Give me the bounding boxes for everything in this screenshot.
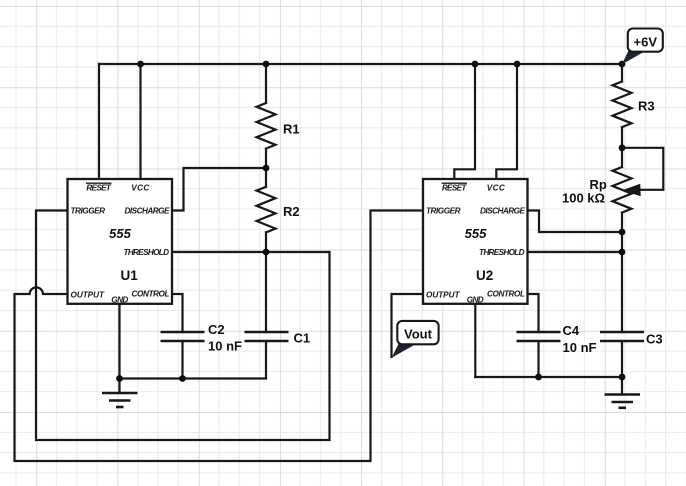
svg-text:U1: U1 xyxy=(121,268,139,283)
wire R2 bottom lead xyxy=(265,232,267,252)
wire U2 vcc to rail xyxy=(496,64,517,179)
wire U1 reset to rail xyxy=(98,64,100,179)
svg-text:10 nF: 10 nF xyxy=(563,340,597,355)
resistor R3 xyxy=(613,82,632,128)
node dot C3/ground bus xyxy=(619,374,626,381)
node dot R2/threshold xyxy=(263,249,270,256)
svg-text:GND: GND xyxy=(111,295,128,304)
wire U1 threshold / trigger loop xyxy=(36,211,330,441)
svg-text:100 kΩ: 100 kΩ xyxy=(562,190,605,205)
svg-text:C1: C1 xyxy=(294,331,311,346)
wire C3 bottom to ground xyxy=(621,341,623,395)
wire R1 bottom lead xyxy=(265,149,267,168)
wire Rp bottom lead xyxy=(621,213,623,252)
wire top +6V rail xyxy=(99,63,622,65)
wire C1 bottom xyxy=(265,341,267,379)
ground U1 xyxy=(102,393,138,407)
node dot R1/R2 xyxy=(263,165,270,172)
potentiometer Rp xyxy=(613,167,632,213)
svg-text:TRIGGER: TRIGGER xyxy=(71,206,106,215)
svg-text:THRESHOLD: THRESHOLD xyxy=(124,248,170,257)
node dot C2 bus xyxy=(179,375,186,382)
svg-text:555: 555 xyxy=(465,226,487,241)
svg-text:DISCHARGE: DISCHARGE xyxy=(125,206,171,215)
svg-text:OUTPUT: OUTPUT xyxy=(71,291,105,300)
resistor R2 xyxy=(257,187,276,233)
wire R2 top lead xyxy=(265,168,267,187)
node dot rail vcc1 xyxy=(137,61,144,68)
capacitor C4 xyxy=(517,332,561,341)
node dot C4 bus xyxy=(535,374,542,381)
node dot gnd1 bus xyxy=(116,375,123,382)
svg-text:VCC: VCC xyxy=(131,184,150,193)
node Vout flag xyxy=(392,321,439,358)
wire C2 bottom xyxy=(181,341,183,379)
svg-text:TRIGGER: TRIGGER xyxy=(426,206,461,215)
wire U2 gnd down xyxy=(474,304,476,377)
wire U2 threshold to C3 node xyxy=(528,251,623,253)
wire C4 bottom xyxy=(537,341,539,377)
wire U1 discharge to R1/R2 node xyxy=(172,168,266,211)
wire R3 top lead xyxy=(621,64,623,82)
svg-text:C4: C4 xyxy=(563,323,580,338)
svg-text:RESET: RESET xyxy=(442,184,467,193)
wire U1 output to U2 trigger (with hop) xyxy=(15,211,424,462)
capacitor C1 xyxy=(245,332,289,341)
wire Rp wiper loop xyxy=(622,148,663,190)
svg-text:R3: R3 xyxy=(638,99,655,114)
node +6V flag xyxy=(622,29,663,65)
svg-text:10 nF: 10 nF xyxy=(208,339,242,354)
op-amp U2 (555 timer) xyxy=(423,179,528,304)
svg-text:OUTPUT: OUTPUT xyxy=(426,291,460,300)
node dot rail R1 xyxy=(263,61,270,68)
node dot rail reset2 xyxy=(472,61,479,68)
wire C3 top xyxy=(621,252,623,332)
wire R3 bottom lead xyxy=(621,127,623,167)
wire U2 cap ground bus xyxy=(475,376,622,378)
svg-text:RESET: RESET xyxy=(86,184,111,193)
svg-text:R1: R1 xyxy=(283,122,300,137)
svg-text:+6V: +6V xyxy=(634,34,658,49)
svg-text:U2: U2 xyxy=(476,268,493,283)
svg-text:R2: R2 xyxy=(283,204,300,219)
svg-text:C3: C3 xyxy=(646,332,663,347)
node dot rail vcc2 xyxy=(514,61,521,68)
wire C1 top xyxy=(265,252,267,332)
wire U2 control to C4 xyxy=(528,294,539,332)
resistor R1 xyxy=(257,103,276,149)
svg-text:VCC: VCC xyxy=(487,184,506,193)
svg-text:CONTROL: CONTROL xyxy=(132,290,170,299)
svg-text:Vout: Vout xyxy=(404,327,433,342)
svg-text:C2: C2 xyxy=(208,322,225,337)
wire U2 output to Vout xyxy=(392,294,424,357)
svg-text:555: 555 xyxy=(109,226,131,241)
node dot threshold2/C3 xyxy=(619,249,626,256)
capacitor C3 xyxy=(600,332,644,341)
wire U1 vcc to rail xyxy=(139,64,141,179)
wire U2 reset to rail xyxy=(454,64,475,179)
svg-text:DISCHARGE: DISCHARGE xyxy=(480,206,526,215)
wire U1 cap ground bus xyxy=(120,377,267,379)
node dot R3/Rp xyxy=(619,144,626,151)
svg-text:GND: GND xyxy=(467,295,484,304)
wire R1 top lead xyxy=(265,64,267,103)
Rp wiper arrow xyxy=(624,184,640,195)
wire U1 control to C2 xyxy=(172,294,183,332)
svg-text:CONTROL: CONTROL xyxy=(487,290,525,299)
wire U1 gnd down xyxy=(118,304,120,393)
node dot Rp/discharge2 xyxy=(619,229,626,236)
wire U2 discharge to Rp bottom xyxy=(528,211,623,233)
capacitor C2 xyxy=(161,332,205,341)
ground U2 xyxy=(605,395,641,408)
node dot rail +6V xyxy=(619,61,626,68)
op-amp U1 (555 timer) xyxy=(68,179,173,304)
svg-text:THRESHOLD: THRESHOLD xyxy=(479,248,525,257)
